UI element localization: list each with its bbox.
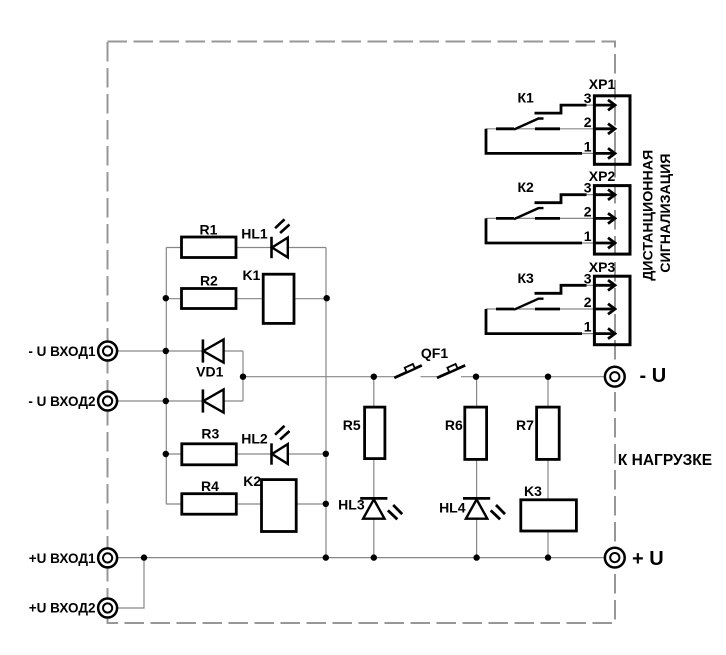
svg-text:К3: К3 [518, 270, 535, 286]
svg-text:К1: К1 [518, 90, 535, 106]
svg-text:VD1: VD1 [196, 364, 223, 380]
svg-text:2: 2 [584, 294, 592, 310]
svg-text:XP1: XP1 [589, 76, 616, 92]
svg-text:- U: - U [640, 365, 667, 387]
svg-text:HL4: HL4 [439, 500, 466, 516]
svg-text:R2: R2 [200, 272, 218, 288]
svg-text:HL2: HL2 [241, 431, 268, 447]
svg-text:2: 2 [584, 203, 592, 219]
svg-text:3: 3 [584, 270, 592, 286]
svg-text:1: 1 [584, 319, 592, 335]
svg-text:3: 3 [584, 180, 592, 196]
svg-text:QF1: QF1 [421, 345, 448, 361]
svg-text:R1: R1 [200, 222, 218, 238]
svg-text:- U ВХОД1: - U ВХОД1 [28, 344, 96, 359]
svg-text:R3: R3 [201, 426, 219, 442]
svg-text:R7: R7 [516, 417, 534, 433]
svg-text:+U ВХОД2: +U ВХОД2 [29, 601, 96, 616]
svg-text:- U ВХОД2: - U ВХОД2 [28, 394, 95, 409]
svg-text:+U ВХОД1: +U ВХОД1 [29, 551, 96, 566]
svg-text:ДИСТАНЦИОННАЯ: ДИСТАНЦИОННАЯ [641, 150, 657, 281]
svg-text:XP3: XP3 [589, 259, 616, 275]
svg-text:R6: R6 [445, 417, 463, 433]
svg-text:К2: К2 [518, 179, 535, 195]
svg-text:HL3: HL3 [338, 497, 365, 513]
svg-text:3: 3 [584, 90, 592, 106]
svg-text:1: 1 [584, 228, 592, 244]
svg-text:K1: K1 [242, 267, 260, 283]
svg-text:HL1: HL1 [241, 226, 268, 242]
svg-text:K2: K2 [243, 473, 261, 489]
svg-text:K3: K3 [524, 483, 542, 499]
svg-text:1: 1 [584, 138, 592, 154]
svg-text:XP2: XP2 [589, 168, 616, 184]
svg-text:2: 2 [584, 114, 592, 130]
svg-text:+ U: + U [632, 548, 664, 570]
svg-text:К НАГРУЗКЕ: К НАГРУЗКЕ [618, 452, 712, 469]
svg-text:R5: R5 [343, 417, 361, 433]
svg-text:R4: R4 [201, 478, 219, 494]
svg-text:СИГНАЛИЗАЦИЯ: СИГНАЛИЗАЦИЯ [658, 153, 674, 272]
